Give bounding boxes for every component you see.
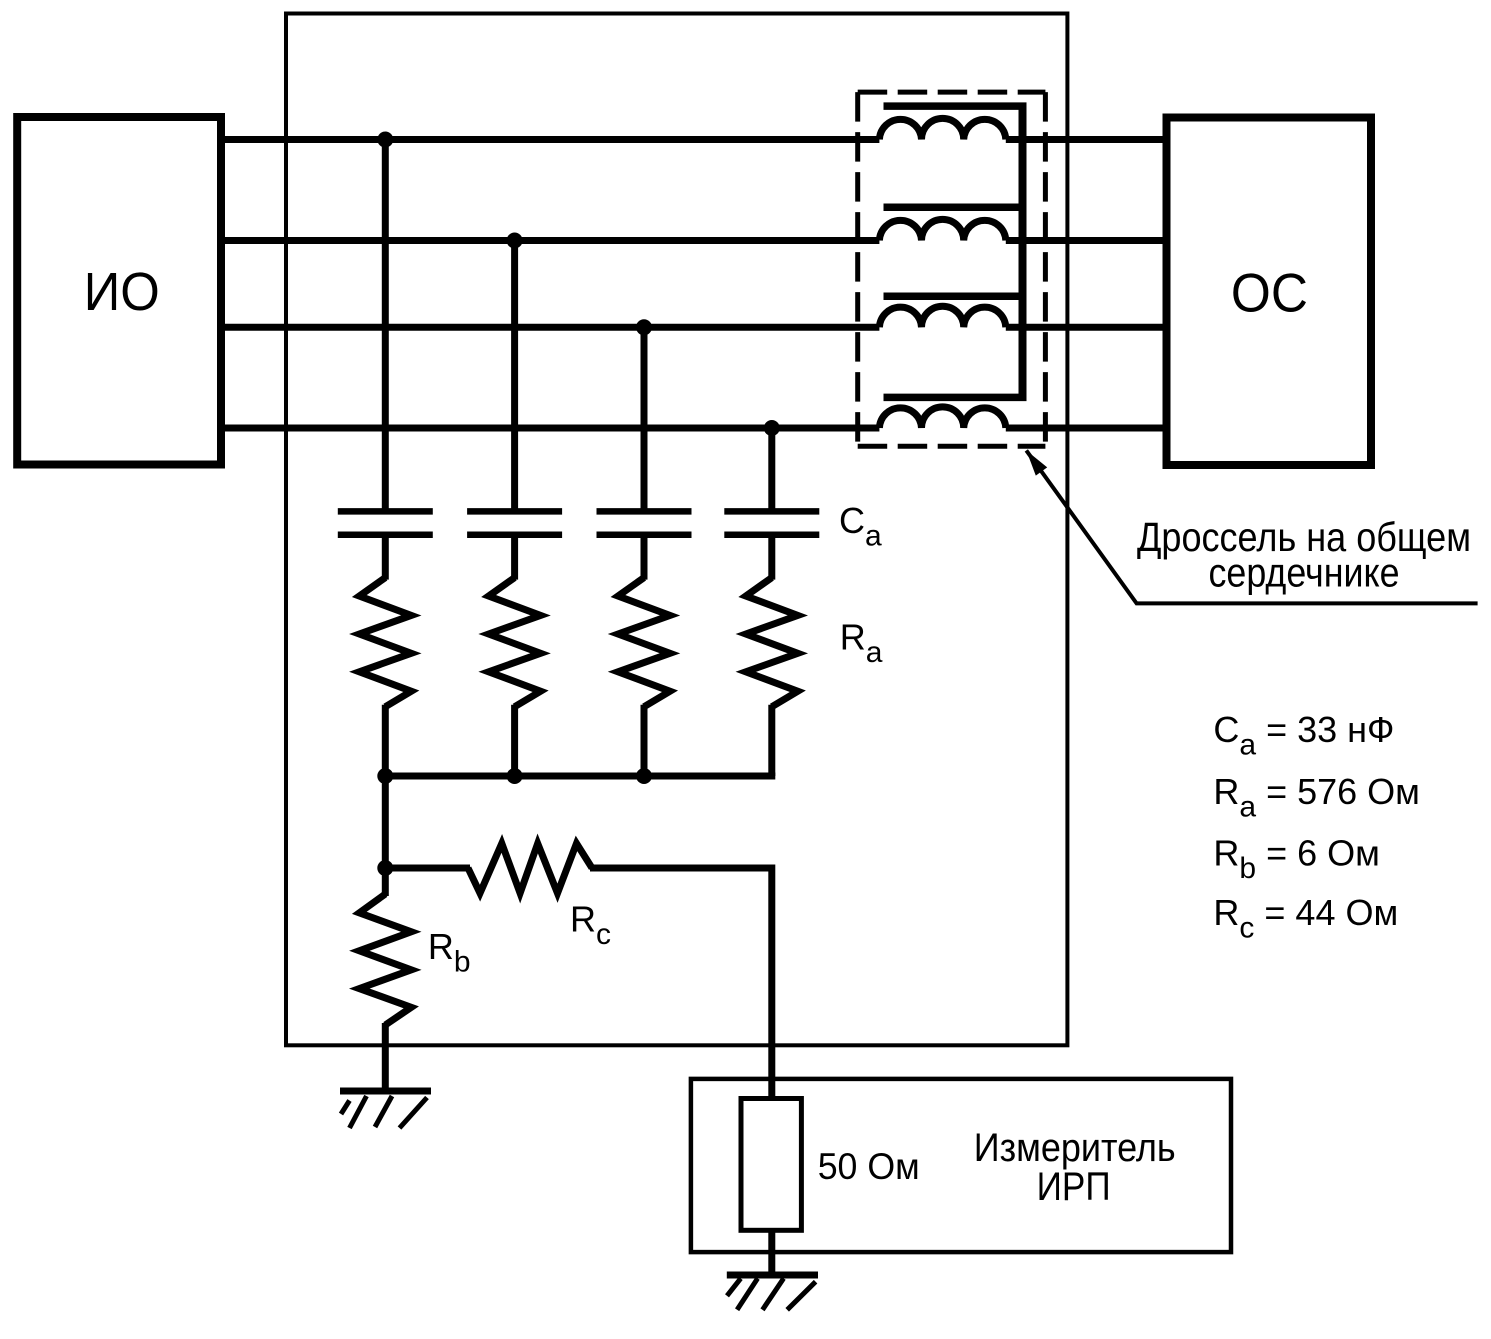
- wire line L3 right segment: [1006, 324, 1167, 331]
- choke winding L4: [879, 407, 1005, 428]
- junction line3/branch3: [636, 319, 652, 335]
- junction line4/branch4: [764, 420, 780, 436]
- junction bus/branch1: [377, 768, 393, 784]
- ground symbol (meter): [727, 1275, 818, 1310]
- resistor 50 Ом (box style): [741, 1099, 801, 1231]
- leader line to choke label: [1026, 450, 1477, 603]
- wire: cap to resistor #2: [511, 533, 518, 580]
- wire: node to Rb: [382, 868, 389, 896]
- wire: resistor #3 to bus: [641, 705, 648, 776]
- wire: cap to resistor #1: [382, 533, 389, 580]
- choke common core vertical bar: [1019, 103, 1027, 401]
- junction bus/branch3: [636, 768, 652, 784]
- junction node Rb/Rc: [377, 860, 393, 876]
- resistor Ra #2: [489, 578, 541, 707]
- V-network outer box: [286, 14, 1067, 1046]
- wire line L1 left segment: [221, 136, 879, 143]
- svg-text:Измеритель: Измеритель: [974, 1126, 1176, 1170]
- resistor Rc: [468, 843, 592, 893]
- wire: resistor #4 to bus: [768, 705, 775, 776]
- wire: resistor #2 to bus: [511, 705, 518, 776]
- leader arrowhead: [1026, 450, 1047, 475]
- svg-text:50 Ом: 50 Ом: [818, 1146, 920, 1187]
- resistor Rb: [359, 894, 411, 1025]
- wire: bus to Rb/Rc node: [382, 776, 389, 868]
- network box ОС: [1167, 118, 1372, 466]
- resistor Ra #1: [359, 578, 411, 707]
- junction bus/branch2: [507, 768, 523, 784]
- svg-text:ОС: ОС: [1231, 262, 1308, 324]
- wire: branch 4 drop from line: [768, 428, 775, 513]
- wire line L3 left segment: [221, 324, 879, 331]
- choke core bar 1: [884, 102, 1027, 110]
- wire line L4 right segment: [1006, 425, 1167, 432]
- capacitor Ca #2: [467, 508, 562, 515]
- IRP meter box (Измеритель ИРП): [691, 1079, 1231, 1252]
- wire: cap to resistor #4: [768, 533, 775, 580]
- choke winding L3: [879, 306, 1005, 327]
- wire: node to Rc: [385, 865, 470, 872]
- wire: resistor #1 to bus: [382, 705, 389, 776]
- wire: branch 3 drop from line: [641, 327, 648, 513]
- capacitor Ca #1: [338, 508, 433, 515]
- equipment-under-test box ИО: [17, 117, 221, 465]
- svg-text:ИРП: ИРП: [1037, 1165, 1111, 1209]
- choke dashed box (Дроссель): [858, 92, 1046, 446]
- wire line L2 left segment: [221, 237, 879, 244]
- junction line2/branch2: [507, 233, 523, 249]
- wire: cap to resistor #3: [641, 533, 648, 580]
- wire line L4 left segment: [221, 425, 879, 432]
- wire: Rc to meter (corner at right): [590, 868, 772, 1099]
- svg-text:сердечнике: сердечнике: [1209, 550, 1400, 596]
- junction line1/branch1: [377, 132, 393, 148]
- resistor Ra #4: [746, 578, 798, 707]
- common bus wire: [385, 773, 775, 780]
- wire: branch 2 drop from line: [511, 241, 518, 514]
- svg-text:ИО: ИО: [84, 262, 160, 322]
- wire: Rb to ground: [382, 1023, 389, 1091]
- choke winding L2: [879, 219, 1005, 240]
- choke core bar 2: [884, 203, 1027, 211]
- wire line L1 right segment: [1006, 136, 1167, 143]
- choke winding L1: [879, 118, 1005, 139]
- ground symbol (Rb): [340, 1091, 431, 1128]
- resistor Ra #3: [618, 578, 670, 707]
- choke core bar 3: [884, 293, 1027, 301]
- choke core bar 4: [884, 394, 1027, 402]
- capacitor Ca #4: [724, 508, 819, 515]
- wire: 50 Ом to ground: [768, 1230, 775, 1275]
- capacitor Ca #3: [597, 508, 692, 515]
- wire: branch 1 drop from line: [382, 140, 389, 514]
- wire line L2 right segment: [1006, 237, 1167, 244]
